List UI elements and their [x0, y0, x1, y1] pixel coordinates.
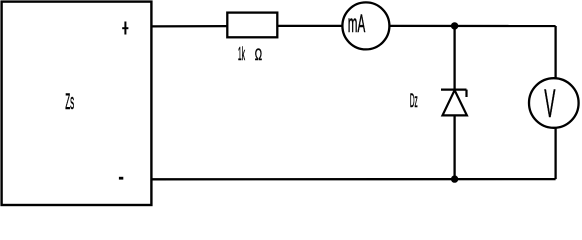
node junction bottom	[451, 175, 458, 182]
node junction top	[451, 22, 458, 29]
wire junction down to zener cathode	[453, 26, 455, 90]
svg-text:V: V	[544, 82, 555, 126]
wire zener anode to bottom junction	[453, 115, 455, 179]
label ohm	[255, 45, 262, 64]
svg-text:1k: 1k	[238, 43, 245, 64]
ammeter U1 circle	[342, 2, 389, 49]
label mA	[348, 10, 366, 38]
minus terminal label	[119, 177, 123, 180]
plus terminal label	[122, 22, 128, 35]
svg-text:Dz: Dz	[410, 91, 418, 112]
zener diode Dz triangle	[443, 90, 467, 115]
svg-text:Ω: Ω	[255, 45, 262, 64]
svg-text:Zs: Zs	[65, 89, 74, 114]
wire bottom return to source	[151, 178, 555, 180]
voltage source Zs box	[2, 2, 152, 205]
wire ammeter to top-right corner	[389, 25, 555, 27]
wire resistor to ammeter	[277, 25, 342, 27]
wire source to resistor	[151, 25, 227, 28]
label V	[544, 82, 555, 126]
wire top-right corner down to voltmeter	[554, 26, 556, 79]
voltmeter U2 circle	[529, 78, 579, 128]
label Dz	[410, 91, 418, 112]
resistor R1 body	[227, 13, 277, 38]
label 1k	[238, 43, 245, 64]
zener diode Dz cathode bar	[441, 90, 467, 97]
label Zs	[65, 89, 74, 114]
wire voltmeter down to bottom-right corner	[554, 128, 556, 179]
svg-text:mA: mA	[348, 10, 366, 38]
